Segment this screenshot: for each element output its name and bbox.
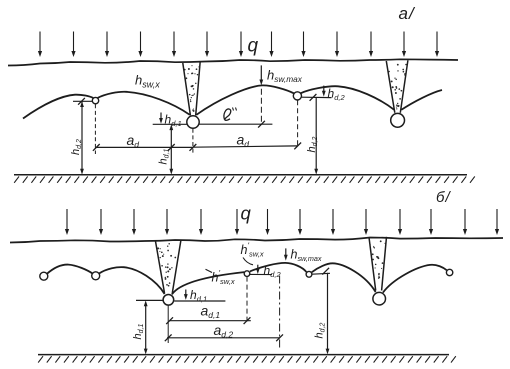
vertical at max drawdown point (fig a) [260, 89, 262, 124]
svg-text:q: q [241, 203, 252, 224]
pointer arrow h_d,2 mid (fig b) [257, 265, 259, 272]
drain 1 trapezoid (fig b) [155, 240, 181, 293]
pointer arrow h_sw,max (fig a) [260, 65, 262, 82]
crest circle 4 (fig b) [306, 271, 312, 277]
left crest circle (fig a) [92, 97, 98, 103]
height line h_d,2 left (fig a) [81, 101, 83, 172]
drain 1 bottom circle (fig a) [187, 116, 199, 128]
pointer arrow h_d,1 (fig b) [185, 290, 187, 298]
distributed load arrows q (fig a) [38, 32, 439, 58]
drain 1 stipple dots (fig b) [157, 243, 176, 287]
drain 1 trapezoid (fig a) [183, 63, 200, 116]
impervious base hatched line (fig b) [38, 355, 456, 363]
impervious base hatched line (fig a) [14, 175, 475, 183]
centerline between drains dash-dot (fig b) [279, 276, 281, 349]
crest circle 2 (fig b) [92, 272, 100, 280]
dimension a_d right (fig a) [193, 146, 298, 147]
drain 2 trapezoid (fig a) [386, 60, 408, 113]
drain 2 trapezoid (fig b) [369, 237, 387, 291]
svg-text:q: q [248, 36, 259, 57]
dimension a_d,1 (fig b) [170, 320, 251, 322]
dimension a_d,2 (fig b) [167, 337, 280, 339]
level line right of middle circle (fig a) [302, 96, 332, 98]
distributed load arrows q (fig b) [65, 209, 499, 235]
dimension line l-doubleprime (fig a) [199, 123, 272, 125]
svg-text:б/: б/ [436, 189, 451, 206]
pointer arrow h_d,2 (fig a) [323, 86, 325, 95]
drain 2 bottom circle (fig b) [373, 292, 386, 305]
leader from lower label to curve (fig b) [206, 269, 213, 272]
level line right of drain 1 circle (fig b) [174, 300, 225, 302]
pointer arrow h_d,1 (fig a) [160, 113, 162, 122]
extension under drain 1 circle (fig a) [192, 129, 194, 154]
height line h_d,2 right (fig a) [315, 98, 317, 173]
crest circle 5 right end (fig b) [446, 269, 452, 275]
level line left of drain 1 (fig a) [153, 123, 187, 125]
leader from label to curve (fig b) [243, 258, 253, 265]
crest circle 3 (fig b) [244, 271, 250, 277]
label l-doubleprime (fig a) [224, 109, 231, 120]
drain 2 stipple dots (fig b) [369, 240, 385, 278]
middle crest circle (fig a) [293, 92, 301, 100]
drain 1 stipple dots (fig a) [184, 65, 201, 112]
pointer arrow h_sw,max (fig b) [285, 248, 287, 258]
height line h_d,1 (fig a) [170, 127, 172, 148]
ground surface line (fig b) [10, 238, 503, 243]
level line right of crest circle 3 (fig b) [250, 273, 272, 275]
level line at left crest circle (fig a) [73, 100, 92, 102]
drain 2 bottom circle (fig a) [391, 113, 405, 127]
water table depression curve (fig b) [47, 263, 447, 295]
level line right of crest circle 4 (fig b) [312, 272, 330, 275]
extension under drain 1 circle (fig b) [167, 305, 169, 343]
drain 2 stipple dots (fig a) [388, 64, 406, 110]
extension under middle crest circle (fig a) [297, 100, 299, 146]
extension line under left crest circle (fig a) [94, 104, 96, 154]
height line h_d,2 right (fig b) [327, 273, 329, 352]
drain 1 bottom circle (fig b) [163, 295, 174, 306]
water table depression curve (fig a) [23, 85, 442, 118]
ground surface line (fig a) [8, 59, 458, 65]
dimension a_d left (fig a) [96, 146, 193, 148]
svg-text:a/: a/ [399, 4, 416, 23]
height line h_d,1 (fig b) [145, 303, 147, 327]
extension under crest circle 3 (fig b) [246, 277, 248, 322]
crest circle 1 (fig b) [40, 272, 48, 280]
level line left of drain 1 (fig b) [136, 299, 163, 301]
